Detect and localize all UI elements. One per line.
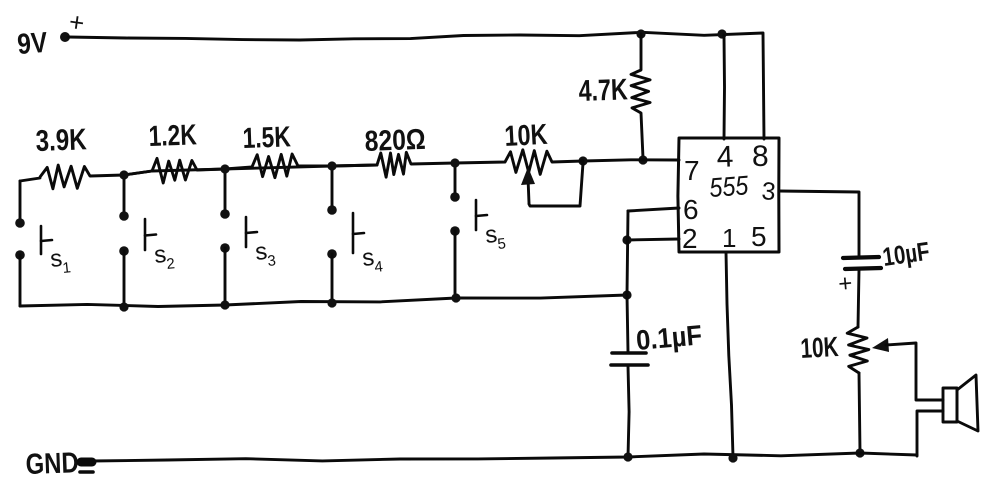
svg-text:3.9K: 3.9K [35, 123, 87, 158]
wire switch S4 upper lead [331, 166, 334, 210]
wire pot wiper shaft [528, 178, 529, 203]
switch S5 actuator [476, 200, 487, 230]
svg-text:5: 5 [751, 221, 767, 252]
junction ground rail / pin1 [728, 453, 737, 462]
pot wiper arrowhead right [872, 338, 889, 352]
svg-text:3: 3 [760, 177, 776, 206]
pin label 1 [722, 223, 736, 253]
label S1 [49, 245, 72, 277]
wire 0.1uF to ground [628, 366, 629, 457]
svg-text:0.1µF: 0.1µF [635, 319, 703, 356]
junction bus / S5 [451, 293, 460, 302]
wire pin 3 output [779, 191, 859, 256]
svg-text:8: 8 [752, 140, 769, 173]
capacitor 10uF top plate [843, 257, 879, 258]
node S1 lower contact [15, 250, 25, 260]
pot wiper arrowhead [521, 167, 535, 185]
label 10K volume [800, 331, 840, 364]
switch S3 actuator [246, 217, 257, 247]
ground symbol [80, 462, 93, 472]
junction pin7 rail / wiper [578, 156, 587, 165]
label GND [25, 447, 79, 481]
svg-text:4: 4 [374, 258, 384, 276]
pin label 3 [760, 177, 776, 206]
svg-text:555: 555 [708, 170, 750, 203]
pin label 5 [751, 221, 767, 252]
potentiometer 10K track [847, 327, 869, 373]
junction bus / S3 [220, 300, 229, 309]
junction ladder rail / S2 [119, 170, 128, 179]
label 555 [708, 170, 750, 203]
junction ladder rail / S3 [220, 164, 229, 173]
wire pin 4 to top rail [723, 35, 726, 139]
label 10uF [881, 236, 932, 272]
node 9V terminal [60, 32, 70, 42]
switch S4 actuator [353, 213, 364, 253]
node S2 upper contact [119, 211, 129, 221]
wire switch S1 upper lead [19, 181, 22, 223]
svg-text:1.2K: 1.2K [148, 119, 197, 153]
junction ladder rail / S4 [327, 161, 336, 170]
wire switch S5 lower lead [454, 231, 457, 298]
pin label 8 [752, 140, 769, 173]
IC U1 555 body [678, 138, 779, 252]
junction top rail / pin 4 [717, 29, 726, 38]
wire pin 2 lead [627, 239, 679, 240]
wire pot wiper return [529, 163, 583, 206]
svg-text:GND: GND [25, 447, 79, 481]
wire speaker return [917, 411, 943, 456]
wire ladder rail with resistors [124, 165, 377, 175]
svg-text:9V: 9V [16, 27, 49, 61]
wire ground rail [91, 453, 917, 461]
junction pin2 / node [622, 235, 631, 244]
label + polarity [67, 6, 86, 38]
label S5 [484, 221, 507, 253]
label 820ohm [364, 124, 426, 158]
junction bus / S4 [327, 298, 336, 307]
junction pin7 rail / 4.7K [638, 155, 647, 164]
wire switch S3 upper lead [224, 169, 227, 214]
pin label 7 [684, 155, 700, 186]
pin label 2 [682, 223, 698, 254]
capacitor 0.1uF bottom plate [611, 363, 648, 367]
label S3 [254, 238, 277, 270]
label S2 [153, 241, 176, 273]
svg-text:3: 3 [267, 252, 277, 270]
svg-text:2: 2 [166, 255, 176, 273]
junction ladder rail / S5 [450, 158, 459, 167]
wire pin 7 rail [583, 160, 679, 161]
wire switch common bus [20, 295, 627, 307]
svg-text:5: 5 [497, 235, 507, 253]
node S3 lower contact [220, 243, 230, 253]
wire 10uF to pot [858, 270, 859, 327]
wire switch S2 upper lead [123, 175, 126, 216]
wire switch S1 lower lead [19, 255, 22, 306]
node S1 upper contact [15, 218, 25, 228]
node S4 lower contact [327, 249, 337, 259]
junction ground rail / pot [855, 448, 864, 457]
wire pot to ground [859, 373, 860, 452]
svg-text:6: 6 [683, 194, 699, 225]
wire trigger node vertical [627, 211, 628, 352]
node S4 upper contact [327, 205, 337, 215]
node S3 upper contact [220, 209, 230, 219]
resistor 3.9K / 1.2K / 1.5K / 820ohm / pot 10K track [20, 150, 583, 189]
label 10K pot [504, 119, 549, 153]
svg-text:+: + [837, 270, 853, 298]
wire pin 1 to ground [726, 252, 733, 457]
label 4.7K [578, 73, 628, 108]
label 0.1uF [635, 319, 703, 356]
wire switch S2 lower lead [123, 251, 126, 307]
label S4 [361, 244, 384, 276]
svg-text:4: 4 [716, 140, 734, 174]
capacitor 10uF bottom plate [845, 268, 881, 269]
svg-text:7: 7 [684, 155, 700, 186]
svg-text:1: 1 [722, 223, 736, 253]
junction bus / trigger node [622, 290, 631, 299]
svg-text:4.7K: 4.7K [578, 73, 628, 108]
wire pin 6 lead [628, 208, 679, 211]
junction top rail / 4.7K [636, 29, 645, 38]
junction ground rail / 0.1uF [623, 452, 632, 461]
node S5 lower contact [450, 226, 460, 236]
label 1.5K [242, 121, 291, 155]
label 10uF + [837, 270, 853, 298]
switch S1 actuator [41, 226, 52, 254]
capacitor 0.1uF top plate [612, 351, 646, 355]
pin label 6 [683, 194, 699, 225]
speaker cone [957, 375, 978, 431]
svg-text:10K: 10K [800, 331, 840, 364]
svg-text:1: 1 [62, 259, 72, 277]
svg-text:2: 2 [682, 223, 698, 254]
wire switch S5 upper lead [454, 163, 457, 197]
label 9V supply [16, 27, 49, 61]
resistor 4.7K [631, 34, 650, 158]
wire switch S4 lower lead [331, 254, 334, 303]
speaker driver [943, 388, 957, 422]
svg-text:10K: 10K [504, 119, 549, 153]
wire switch S3 lower lead [224, 248, 227, 305]
wire 9V top rail [68, 32, 764, 139]
node S5 upper contact [450, 192, 460, 202]
svg-text:820Ω: 820Ω [364, 124, 426, 158]
node S2 lower contact [119, 246, 129, 256]
wire volume wiper [886, 343, 943, 400]
svg-text:1.5K: 1.5K [242, 121, 291, 155]
label 3.9K [35, 123, 87, 158]
junction bus / S2 [119, 302, 128, 311]
pin label 4 [716, 140, 734, 174]
switch S2 actuator [145, 219, 156, 250]
label 1.2K [148, 119, 197, 153]
